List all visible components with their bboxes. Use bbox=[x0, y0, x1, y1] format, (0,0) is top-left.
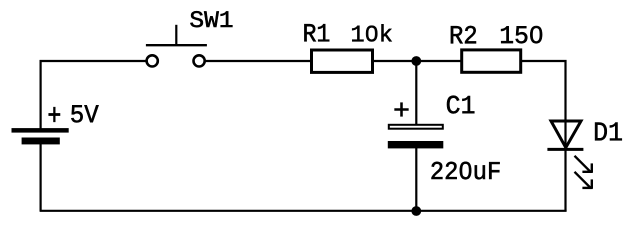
resistor R2 body bbox=[462, 50, 521, 72]
label C1 bbox=[447, 96, 474, 114]
LED D1 light emission arrow 2 bbox=[575, 172, 593, 189]
switch SW1 left terminal circle bbox=[147, 55, 158, 66]
node: junction dot R1/R2/C1 bbox=[411, 56, 421, 66]
resistor R1 body bbox=[312, 50, 373, 72]
LED D1 cathode bar bbox=[547, 148, 583, 151]
wire: node to C1 positive plate bbox=[415, 60, 417, 125]
wire: battery top to switch SW1 left terminal bbox=[40, 60, 147, 62]
battery value label 5V bbox=[71, 105, 98, 122]
wire: battery positive terminal up to top rail bbox=[39, 60, 41, 129]
wire: R2 right lead to top-right corner down through D1 to bottom rail bbox=[521, 61, 566, 211]
wire: bottom rail (ground return) bbox=[40, 210, 567, 212]
LED D1 anode triangle bbox=[551, 121, 581, 148]
wire: switch SW1 right terminal to R1 left lead bbox=[205, 60, 312, 62]
label SW1 bbox=[190, 11, 232, 27]
switch SW1 right terminal circle bbox=[194, 55, 205, 66]
battery 5V negative plate bbox=[22, 138, 60, 145]
battery polarity label + bbox=[49, 107, 60, 122]
value label 150 bbox=[501, 26, 542, 43]
wire: R1 right lead to R2 left lead through node bbox=[373, 60, 462, 62]
label R2 bbox=[451, 26, 476, 43]
value label 220uF bbox=[432, 162, 500, 180]
switch SW1 actuator bar bbox=[146, 44, 207, 46]
switch SW1 actuator stem bbox=[175, 25, 177, 46]
value label 10k bbox=[352, 24, 392, 41]
wire: C1 negative plate to bottom rail bbox=[415, 148, 417, 212]
capacitor C1 positive plate (hollow) bbox=[389, 125, 443, 129]
capacitor C1 negative plate (solid) bbox=[388, 141, 444, 148]
battery 5V positive plate bbox=[12, 128, 69, 133]
node: junction dot C1/bottom rail bbox=[411, 206, 421, 216]
label R1 bbox=[304, 24, 329, 41]
LED D1 light emission arrow 1 bbox=[575, 156, 593, 173]
label D1 bbox=[595, 123, 622, 141]
capacitor polarity label + bbox=[395, 103, 409, 117]
wire: battery negative terminal down to bottom rail bbox=[39, 144, 41, 211]
